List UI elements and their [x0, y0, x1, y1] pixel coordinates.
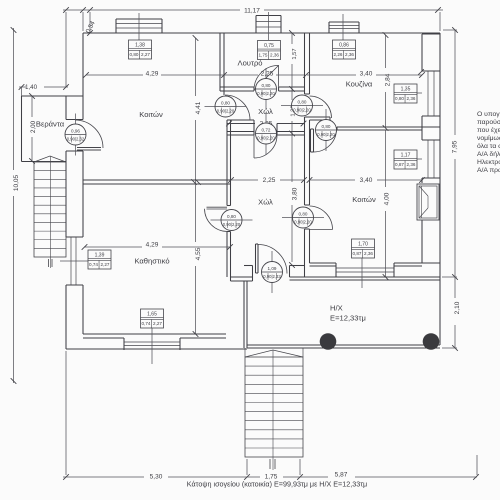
svg-text:0,80: 0,80: [221, 100, 230, 105]
svg-text:0,90|2,32: 0,90|2,32: [67, 137, 85, 142]
svg-text:1,70: 1,70: [358, 242, 368, 248]
svg-text:Κάτοψη ισογείου (κατοικία) E=9: Κάτοψη ισογείου (κατοικία) E=99,93τμ με …: [187, 480, 367, 489]
svg-text:Χώλ: Χώλ: [258, 107, 273, 116]
svg-text:2,36: 2,36: [407, 162, 416, 167]
svg-text:10,05: 10,05: [13, 174, 20, 191]
svg-text:0,80: 0,80: [298, 99, 307, 104]
svg-text:0,90|2,20: 0,90|2,20: [257, 91, 275, 96]
svg-text:E=12,33τμ: E=12,33τμ: [330, 314, 366, 323]
svg-text:4,41: 4,41: [195, 101, 202, 114]
svg-text:2,36: 2,36: [270, 53, 279, 58]
svg-text:νομίμως και: νομίμως και: [477, 134, 500, 142]
svg-text:0,90|2,20: 0,90|2,20: [223, 222, 241, 227]
svg-text:0,74: 0,74: [89, 262, 98, 267]
svg-text:2,36: 2,36: [407, 96, 416, 101]
svg-text:0,80: 0,80: [322, 124, 331, 129]
svg-text:3,80: 3,80: [292, 187, 299, 200]
svg-text:0,90|2,20: 0,90|2,20: [293, 108, 311, 113]
svg-text:1,39: 1,39: [95, 253, 105, 259]
svg-text:1,75: 1,75: [259, 53, 268, 58]
svg-text:Κοιτών: Κοιτών: [139, 110, 163, 119]
svg-text:Καθηστικό: Καθηστικό: [134, 257, 169, 266]
svg-text:7,95: 7,95: [452, 140, 459, 153]
svg-text:0,90|2,20: 0,90|2,20: [317, 132, 335, 137]
svg-text:4,00: 4,00: [384, 192, 391, 205]
svg-text:Λουτρό: Λουτρό: [238, 59, 263, 68]
svg-text:Η/Χ: Η/Χ: [330, 304, 343, 313]
svg-text:0,80: 0,80: [299, 211, 308, 216]
svg-text:0,96: 0,96: [71, 128, 80, 133]
svg-text:0,90|2,20: 0,90|2,20: [257, 136, 275, 141]
svg-text:1,38: 1,38: [135, 43, 145, 49]
svg-text:1,57: 1,57: [292, 48, 298, 59]
svg-text:0,72: 0,72: [262, 127, 271, 132]
svg-text:1,35: 1,35: [401, 87, 411, 93]
svg-text:Βεράντα: Βεράντα: [36, 120, 65, 129]
svg-text:Χώλ: Χώλ: [258, 198, 273, 207]
svg-text:Α/Α δήλωσης: Α/Α δήλωσης: [477, 151, 500, 158]
svg-text:0,80: 0,80: [130, 52, 139, 57]
svg-text:2,36: 2,36: [345, 52, 354, 57]
svg-text:2,84: 2,84: [385, 73, 392, 86]
svg-text:Ηλεκτρολόγο: Ηλεκτρολόγο: [477, 158, 500, 166]
svg-text:Κοιτών: Κοιτών: [352, 195, 376, 204]
svg-text:3,40: 3,40: [360, 177, 373, 184]
svg-text:Κουζίνα: Κουζίνα: [346, 80, 373, 89]
svg-text:0,87: 0,87: [353, 251, 362, 256]
svg-text:που έχει εκδ: που έχει εκδ: [477, 126, 500, 134]
svg-text:0,74: 0,74: [142, 321, 151, 326]
svg-text:0,90|2,20: 0,90|2,20: [294, 220, 312, 225]
svg-text:11,17: 11,17: [244, 8, 260, 15]
svg-text:0,90|2,20: 0,90|2,20: [217, 109, 235, 114]
svg-text:2,36: 2,36: [364, 251, 373, 256]
svg-text:0,86: 0,86: [339, 43, 349, 49]
svg-text:παρούσα μελ: παρούσα μελ: [477, 118, 500, 126]
svg-text:0,80: 0,80: [395, 96, 404, 101]
svg-text:2,27: 2,27: [141, 52, 150, 57]
svg-text:0,80: 0,80: [262, 83, 271, 88]
svg-text:4,29: 4,29: [146, 71, 159, 78]
svg-text:0,90|2,33: 0,90|2,33: [263, 274, 281, 279]
svg-text:2,27: 2,27: [101, 262, 110, 267]
svg-text:1,09: 1,09: [268, 266, 277, 271]
svg-text:2,25: 2,25: [263, 177, 276, 184]
svg-text:4,29: 4,29: [146, 242, 159, 249]
svg-text:2,10: 2,10: [454, 301, 461, 314]
svg-text:2,25: 2,25: [261, 71, 274, 78]
svg-text:5,30: 5,30: [150, 474, 163, 481]
svg-text:0,87: 0,87: [395, 162, 404, 167]
svg-text:2,26: 2,26: [334, 52, 343, 57]
svg-text:1,65: 1,65: [147, 312, 157, 318]
svg-text:2,27: 2,27: [153, 321, 162, 326]
svg-text:3,40: 3,40: [360, 71, 373, 78]
svg-text:1,17: 1,17: [401, 153, 411, 159]
svg-text:0,80: 0,80: [227, 214, 236, 219]
svg-text:όλα τα σχετικ: όλα τα σχετικ: [477, 142, 500, 150]
svg-text:1,40: 1,40: [25, 84, 38, 91]
svg-text:Ο υπογράφων: Ο υπογράφων: [477, 110, 500, 118]
svg-text:5,87: 5,87: [335, 472, 348, 479]
svg-text:Α/Α πρωτοκό: Α/Α πρωτοκό: [477, 166, 500, 174]
svg-text:0,75: 0,75: [264, 43, 274, 49]
svg-text:4,55: 4,55: [195, 247, 202, 260]
